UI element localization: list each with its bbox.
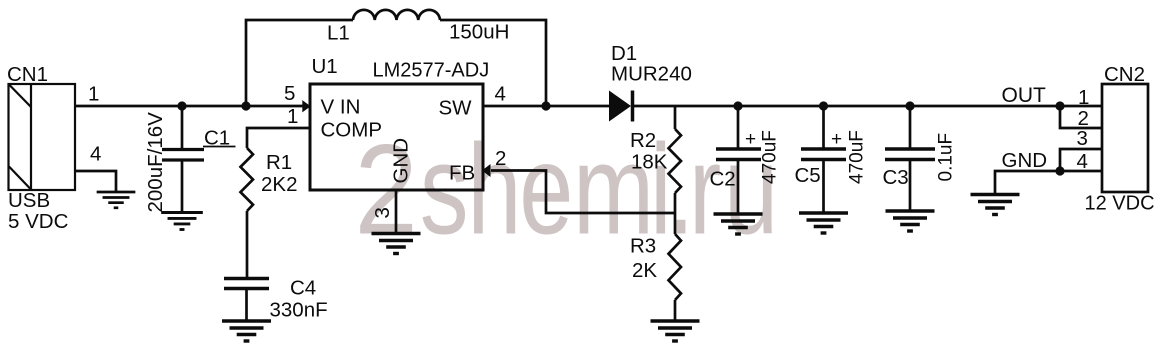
wire FB feedback [491,171,675,214]
wire CN2 pin1/pin2 tie [1060,106,1102,128]
svg-text:USB: USB [8,189,50,212]
capacitor C4 [224,279,269,321]
capacitor C2 [716,106,761,213]
U1 pin 5 arrow [302,100,310,112]
svg-text:C2: C2 [710,168,736,191]
ground (C1) [161,213,203,230]
svg-text:2: 2 [495,147,506,170]
connector CN2 [1102,84,1148,192]
svg-text:+: + [831,129,842,150]
resistor R2 [669,129,682,193]
svg-text:200uF/16V: 200uF/16V [144,112,167,213]
svg-text:SW: SW [439,97,473,120]
wire CN1 pin1 to U1 pin5 [75,105,304,108]
node junction C1 [177,101,186,110]
ground (CN1) [97,192,136,208]
inductor L1 [353,10,440,20]
svg-text:C4: C4 [290,277,316,300]
svg-text:OUT: OUT [1002,84,1047,107]
wire U1 GND pin 3 [395,190,398,233]
connector CN1 [9,84,76,190]
svg-text:4: 4 [90,143,101,166]
wire CN2 pin3 stub [1060,149,1102,171]
svg-text:LM2577-ADJ: LM2577-ADJ [373,60,490,82]
ground (U1 pin 3) [372,234,421,254]
wire SW output rail [483,105,609,108]
svg-text:12 VDC: 12 VDC [1085,193,1155,215]
svg-text:R3: R3 [630,235,656,258]
ground (C2) [714,214,763,234]
svg-text:MUR240: MUR240 [611,63,692,86]
resistor R1 [241,148,254,211]
op-amp U1 LM2577-ADJ box [310,84,483,190]
svg-text:L1: L1 [327,22,350,45]
svg-text:2K2: 2K2 [261,173,297,196]
svg-text:470uF: 470uF [760,130,781,184]
svg-text:C3: C3 [883,166,909,189]
wire R1 to C4 [246,211,249,277]
svg-text:COMP: COMP [321,119,383,142]
svg-text:5 VDC: 5 VDC [8,210,69,233]
svg-text:R2: R2 [630,129,656,152]
node junction CN2 OUT [1055,101,1064,110]
svg-text:+: + [745,129,756,150]
svg-text:3: 3 [371,207,394,218]
svg-text:150uH: 150uH [449,21,509,44]
wire GND run to ground [995,171,1060,194]
svg-text:FB: FB [449,162,475,185]
ground (C5) [799,213,848,233]
wire R2 top lead [674,106,677,129]
svg-text:470uF: 470uF [847,130,868,184]
svg-text:1: 1 [88,83,99,106]
ground (C4) [222,321,271,341]
capacitor C5 [801,106,846,212]
wire CN2 pin4 stub [1060,170,1102,173]
wire R3 to ground [674,300,677,320]
svg-text:GND: GND [390,138,413,184]
svg-text:4: 4 [1077,150,1088,173]
svg-text:1: 1 [1078,86,1089,109]
wire COMP to R1 [247,128,310,148]
resistor R3 [669,234,682,300]
capacitor C1 [162,106,204,212]
svg-text:C5: C5 [795,164,821,187]
svg-text:U1: U1 [312,55,338,78]
svg-text:V IN: V IN [321,96,361,119]
svg-text:3: 3 [1077,127,1088,150]
svg-text:CN2: CN2 [1104,63,1145,86]
ground (CN2) [971,195,1020,215]
wire D1 cathode to CN2 [633,105,1103,108]
svg-text:CN1: CN1 [7,63,48,86]
node junction C5 [819,101,828,110]
node junction L1 left leg [241,101,250,110]
svg-text:0.1uF: 0.1uF [936,133,957,182]
svg-text:5: 5 [284,82,295,105]
node junction C2 [733,101,742,110]
svg-text:2K: 2K [632,259,657,282]
wire R2 bottom to FB node [674,193,677,234]
svg-text:R1: R1 [266,151,292,174]
node junction SW / L1 right leg [541,101,550,110]
ground (C3) [886,211,935,231]
svg-text:18K: 18K [631,151,668,174]
capacitor C3 [885,106,935,210]
node junction CN2 GND [1055,166,1064,175]
diode D1 [609,91,631,122]
svg-text:1: 1 [287,105,298,128]
svg-text:GND: GND [1002,149,1048,172]
ground (R3) [651,321,700,341]
wire L1 to SW node [440,20,546,106]
svg-text:330nF: 330nF [270,299,328,322]
node junction C3 [905,101,914,110]
U1 pin 2 arrow [482,164,491,177]
wire CN1 pin4 [75,171,116,192]
wire top loop with L1 [246,20,353,106]
svg-text:4: 4 [495,83,506,106]
